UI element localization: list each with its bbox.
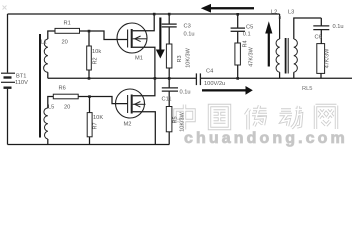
svg-text:R7: R7: [93, 122, 99, 129]
svg-text:47K/3W: 47K/3W: [249, 46, 255, 66]
svg-text:10K: 10K: [93, 115, 103, 121]
svg-text:L1: L1: [41, 40, 47, 46]
svg-text:R5: R5: [173, 116, 179, 123]
svg-text:R3: R3: [177, 55, 183, 62]
svg-text:chuandong.com: chuandong.com: [184, 130, 348, 147]
svg-text:0.1u: 0.1u: [333, 24, 344, 30]
svg-text:R1: R1: [64, 21, 71, 27]
svg-text:L5: L5: [48, 105, 54, 111]
svg-text:0.1: 0.1: [243, 32, 251, 38]
svg-text:BT1: BT1: [16, 74, 26, 80]
svg-text:L2: L2: [271, 10, 277, 16]
svg-text:10K/3W: 10K/3W: [186, 47, 192, 67]
svg-text:M1: M1: [135, 56, 143, 62]
svg-text:n: n: [279, 15, 282, 21]
svg-text:C11: C11: [162, 97, 172, 103]
svg-text:C4: C4: [206, 69, 213, 75]
svg-text:C5: C5: [246, 25, 253, 31]
svg-text:0.1u: 0.1u: [180, 90, 191, 96]
svg-text:110V: 110V: [15, 80, 28, 86]
svg-text:0.1u: 0.1u: [184, 32, 195, 38]
svg-text:10K/3W: 10K/3W: [180, 111, 186, 131]
svg-text:L3: L3: [288, 10, 294, 16]
svg-text:C6: C6: [315, 35, 322, 41]
svg-text:R4: R4: [243, 40, 249, 47]
svg-text:R2: R2: [93, 57, 99, 64]
svg-text:100V/2u: 100V/2u: [204, 81, 225, 87]
svg-text:C3: C3: [184, 24, 191, 30]
svg-text:47K/3W: 47K/3W: [325, 48, 331, 68]
svg-text:10k: 10k: [92, 49, 101, 55]
svg-text:M2: M2: [124, 122, 132, 128]
svg-text:20: 20: [64, 105, 70, 111]
svg-text:R6: R6: [59, 86, 66, 92]
svg-text:20: 20: [62, 40, 68, 46]
svg-text:RL5: RL5: [302, 86, 312, 92]
